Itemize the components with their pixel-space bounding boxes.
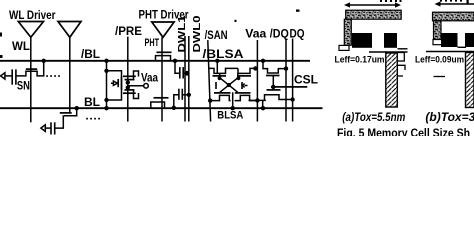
short line (b) (434, 76, 446, 78)
node dot precharge center upper (126, 80, 130, 84)
svg-text:/DQ: /DQ (270, 26, 289, 40)
capacitor dummy cell 2 on BL (174, 95, 179, 107)
gate stipple bar (a) (346, 10, 402, 19)
stray mark left edge 1 (0, 33, 2, 37)
wire WL1 vertical word line (30, 37, 32, 122)
svg-text:DWL1: DWL1 (176, 15, 188, 52)
svg-text:WL Driver: WL Driver (9, 10, 56, 22)
step outline below box (a) (397, 65, 405, 70)
contact hatched column (b) (466, 53, 474, 108)
svg-text:Leff=0.17um: Leff=0.17um (335, 54, 385, 65)
black diffusion rect 1 (b) (441, 33, 458, 47)
short line (a) (397, 75, 403, 77)
precharge equalizer block left rail wire (106, 61, 108, 108)
node junction dot cell2 on BL (75, 106, 79, 110)
wire /BL horizontal bit line (0, 60, 310, 62)
wire dotted continuation cell row 2 (86, 118, 100, 120)
wire /DQ vertical line (285, 39, 287, 122)
svg-text:BL: BL (84, 95, 100, 109)
node dot CSL junction (271, 85, 275, 89)
white box right of column (a) (397, 53, 404, 62)
transistor PHT isolation on BL (151, 102, 165, 108)
black diffusion rect 2 (a) (384, 33, 397, 48)
node dot BL rail (104, 106, 108, 110)
PHT driver triangle (152, 22, 174, 37)
stray mark left edge 2 (0, 55, 3, 58)
wire precharge top-right hook (134, 71, 139, 80)
node dot /BL rail (104, 59, 108, 63)
transistor SA top-left (209, 68, 238, 73)
black diffusion rect 1 (a) (352, 33, 372, 48)
dimension arrow (a) (346, 4, 399, 6)
wire precharge bottom-right hook (134, 90, 139, 99)
node Vaa open terminal circle (144, 84, 149, 89)
svg-text:WL: WL (12, 41, 30, 53)
wire SA cross-coupling X (220, 78, 238, 93)
bitline outline bar (b) (426, 51, 474, 53)
black diffusion rect 2 (b) (465, 33, 474, 47)
node dot X top-left (218, 76, 222, 80)
transistor M1 memory cell 1 access (16, 63, 44, 76)
wire DWL1 vertical line (184, 36, 186, 122)
svg-text:/SAN: /SAN (205, 28, 228, 42)
svg-text:/BL: /BL (81, 47, 100, 61)
wire /SAN vertical line (208, 40, 211, 121)
transistor P2 channel (125, 89, 135, 91)
node dot BL colsw (261, 106, 265, 110)
sense amp /BL input drop (216, 61, 218, 74)
wire DQ vertical line (292, 39, 294, 122)
gate stipple bar (b) (433, 12, 474, 21)
capacitor C2 memory cell 2 storage (41, 125, 45, 132)
transistor column switch top (/BL to /DQ) (263, 62, 286, 73)
wire SA BL input rise (232, 92, 234, 108)
WL driver triangle 1 (18, 22, 43, 38)
wire /PRE vertical line (127, 37, 129, 122)
white notch box (b) (433, 40, 443, 45)
transistor SA gate symbol left (215, 82, 217, 89)
stray mark top small dash 2 (296, 10, 300, 12)
node dot colsw on /BL (261, 59, 265, 63)
wire precharge top branch (107, 71, 122, 77)
wire Vaa vertical line (256, 40, 258, 122)
svg-text:/BLSA: /BLSA (203, 47, 244, 61)
transistor SA bottom-right (235, 95, 258, 100)
node dot X center (227, 83, 231, 87)
wire BL rise to column switch (262, 100, 264, 108)
svg-text:/PRE: /PRE (115, 24, 142, 38)
node dot SA rail bottom-left (208, 98, 212, 102)
transistor column switch bottom (BL to DQ) (265, 95, 293, 101)
cut text fragments above arrow (b) (440, 0, 469, 4)
capacitor C1 memory cell 1 storage (1, 73, 5, 79)
node dot dummy2 on BL (172, 106, 176, 110)
svg-text:DQ: DQ (290, 26, 305, 40)
node dot SA top-right rail (253, 66, 257, 70)
svg-text:(a)Tox=5.5nm: (a)Tox=5.5nm (342, 110, 405, 124)
node dot dummy1 on DWL1 (185, 71, 190, 76)
stray mark top small dash 1 (235, 20, 237, 22)
capacitor dummy cell 1 on /BL (175, 62, 180, 73)
transistor P2 precharge gate bar (123, 92, 136, 94)
node dot SA input on BL (231, 106, 235, 110)
transistor SA bottom-left (210, 95, 231, 100)
svg-text:Vaa: Vaa (141, 71, 158, 85)
node dot rail lower (104, 98, 108, 102)
svg-text:PHT: PHT (145, 37, 160, 49)
svg-text:DWL0: DWL0 (191, 15, 203, 52)
wire Vaa tap to precharge (128, 85, 144, 87)
stipple left column (a) (344, 19, 351, 45)
node dot dummy1 on /BL (173, 59, 177, 63)
wire dotted continuation cell row 1 (46, 75, 60, 77)
wire BL horizontal bit line (0, 107, 323, 109)
transistor SA gate symbol right (241, 82, 243, 89)
white notch box (a) (339, 45, 349, 50)
svg-text:BLSA: BLSA (217, 110, 243, 122)
contact hatched column (a) (386, 53, 398, 107)
transistor PHT isolation on /BL (156, 56, 171, 61)
transistor P1 precharge gate bar (123, 75, 136, 77)
transistor M2 memory cell 2 access (55, 108, 77, 128)
wire DWL0 vertical line (188, 36, 190, 122)
node dot precharge center lower (126, 85, 130, 89)
node dot SA input on /BL (215, 59, 219, 63)
svg-text:Fig. 5 Memory Cell Size Sh: Fig. 5 Memory Cell Size Sh (337, 128, 470, 136)
cut text fragments above arrow (a) (380, 0, 402, 2)
node dot colsw on /DQ (284, 66, 288, 70)
transistor SA top-right (238, 68, 257, 73)
svg-text:CSL: CSL (294, 73, 318, 87)
node dot rail upper (104, 69, 108, 73)
wire WL2 vertical word line (69, 37, 71, 113)
node junction dot cell1 on /BL (42, 59, 46, 63)
wire precharge bottom branch (107, 89, 122, 100)
wire CSL line (271, 86, 307, 88)
svg-text:(b)Tox=3nm: (b)Tox=3nm (425, 110, 474, 124)
wire PHT vertical line (161, 37, 163, 121)
wire SAP common to column switch (249, 99, 266, 101)
node dot Vaa rail bottom (255, 98, 259, 102)
svg-text:Leff=0.09um: Leff=0.09um (415, 54, 464, 65)
transistor P1 channel (125, 79, 135, 81)
stipple left column (b) (434, 21, 442, 40)
transistor EQ channel vertical (121, 77, 123, 90)
dimension arrow (b) (437, 3, 474, 5)
node dot dummy2 on DWL0 (187, 93, 191, 97)
wire CSL gate stems (272, 76, 274, 90)
node dot X top-right (237, 76, 241, 80)
node dot colsw on DQ (290, 97, 294, 101)
WL driver triangle 2 (58, 22, 81, 38)
bitline outline bar (a) (369, 51, 408, 53)
transistor EQ gate bar and arrow (117, 79, 119, 87)
svg-text:Vaa: Vaa (245, 26, 266, 40)
svg-text:SN: SN (17, 80, 30, 92)
